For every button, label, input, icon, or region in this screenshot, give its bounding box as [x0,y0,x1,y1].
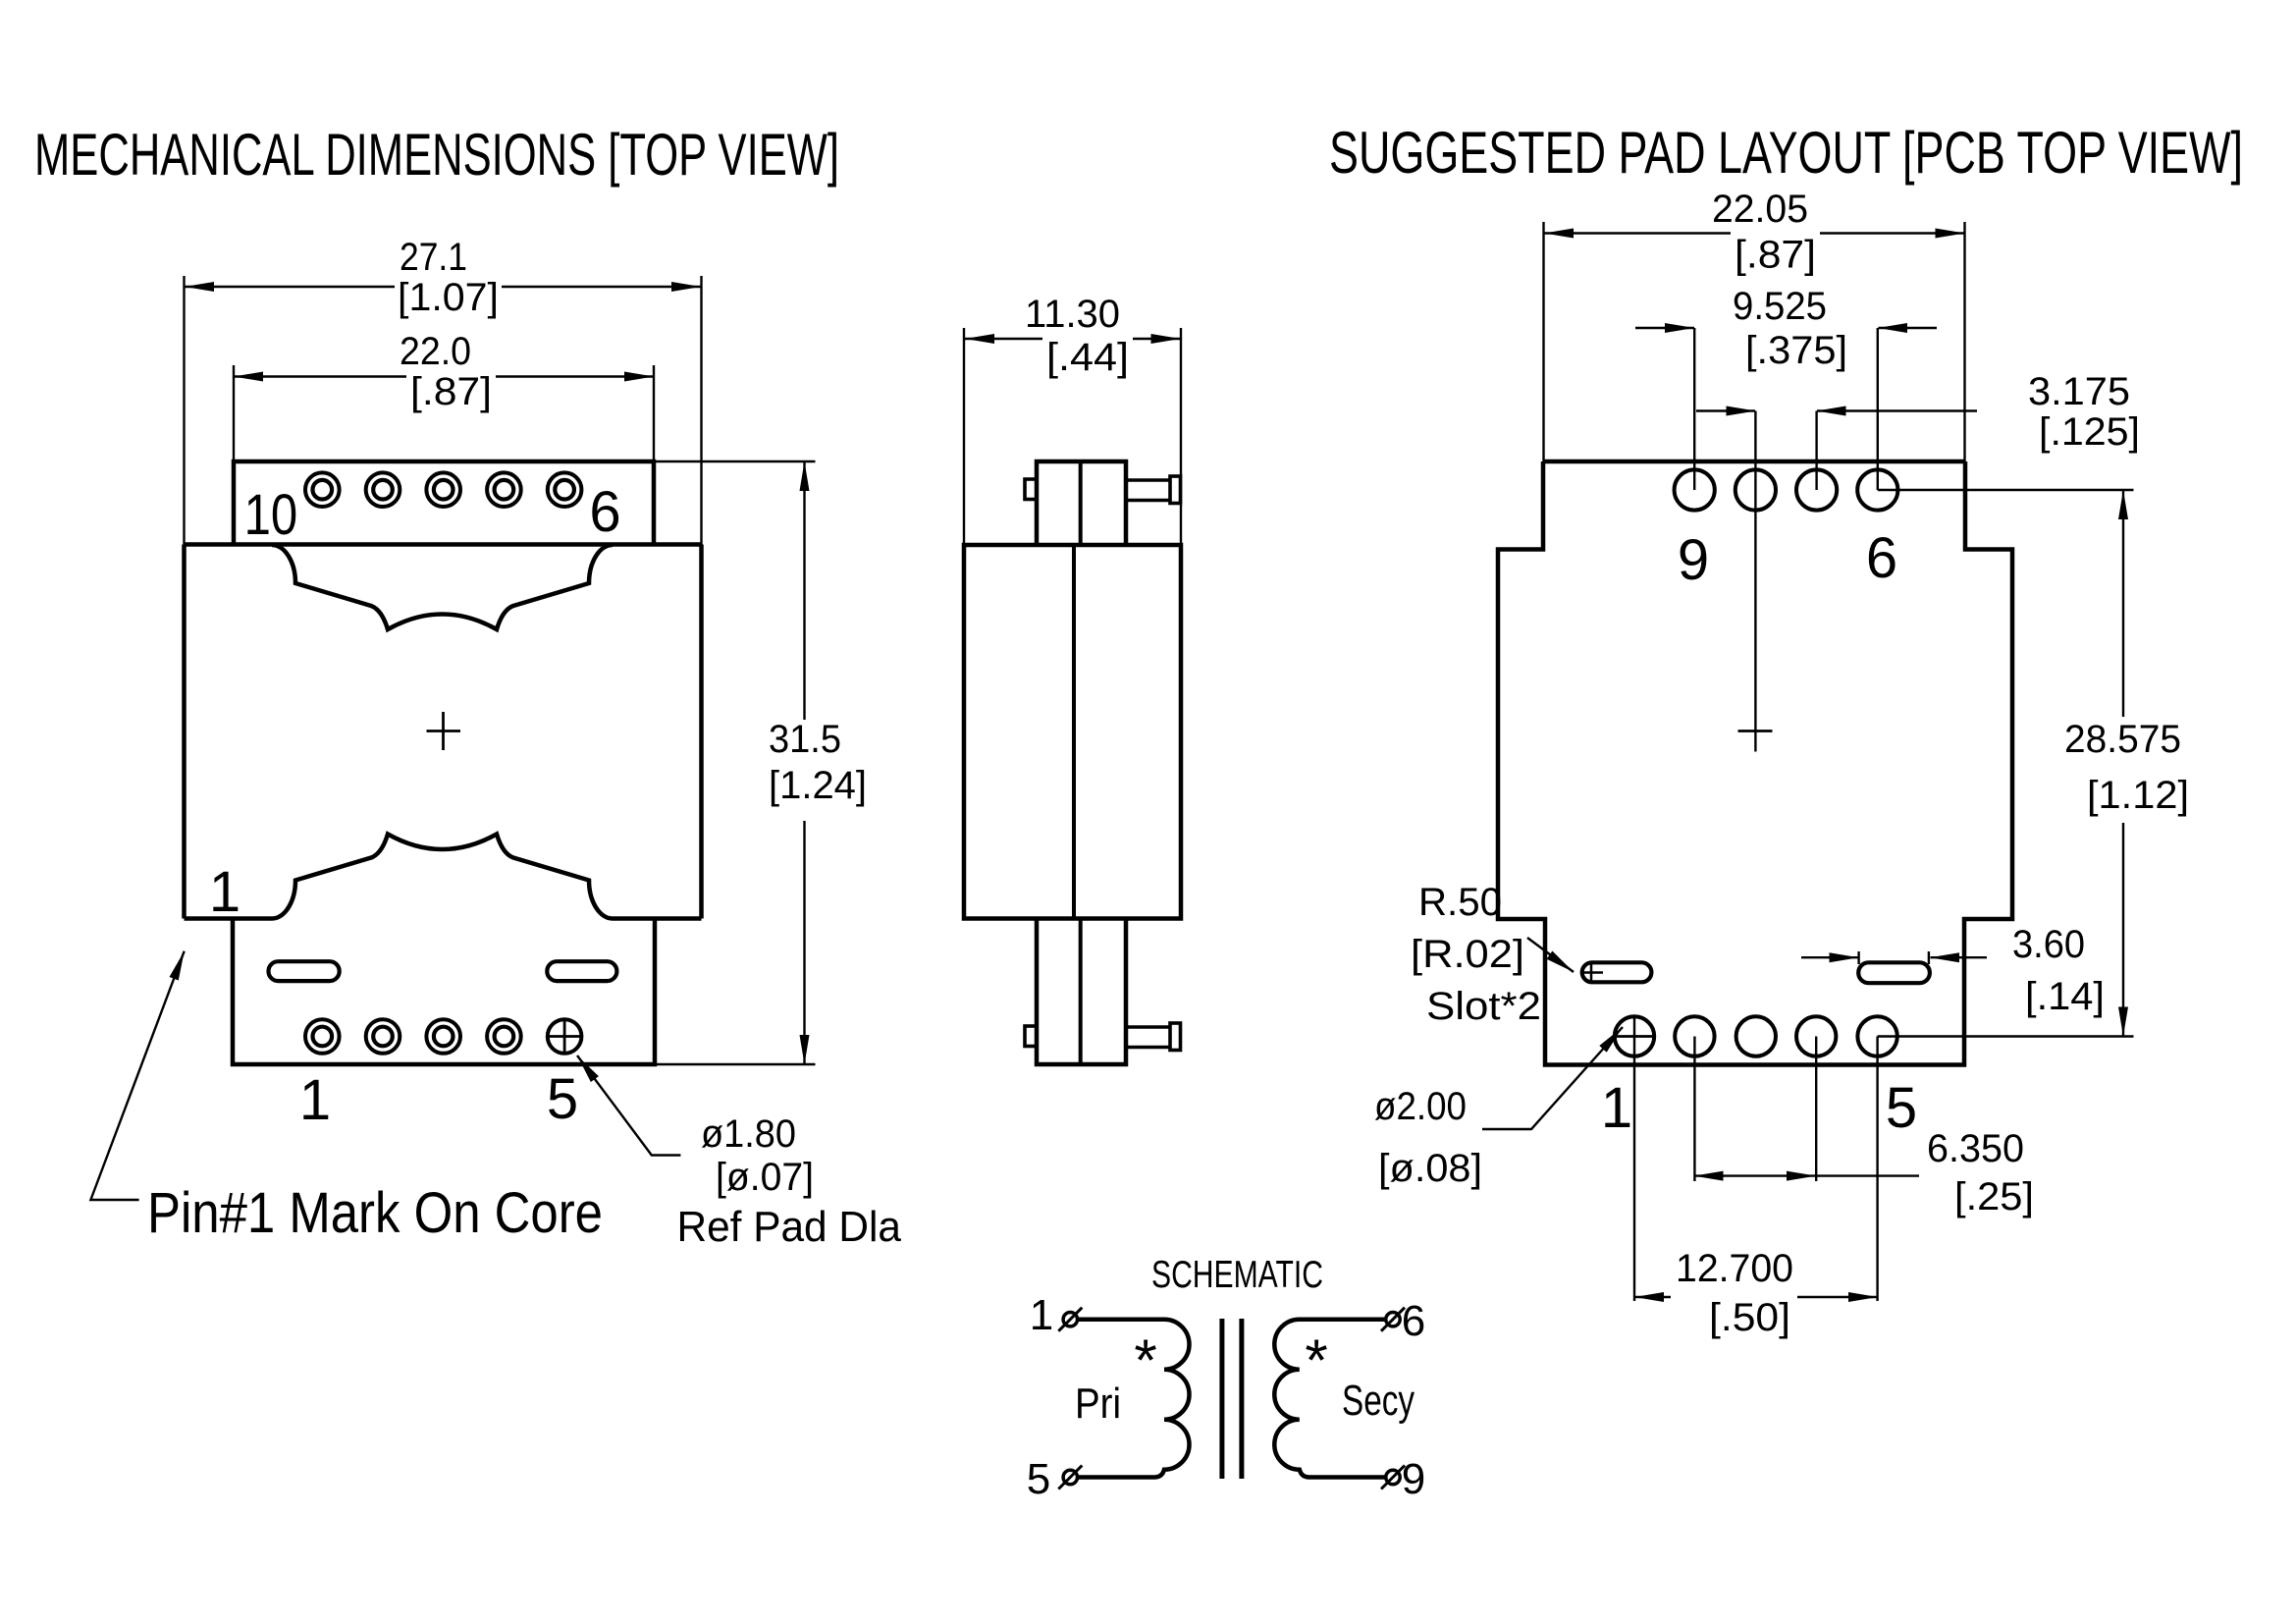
bobbin outline top [272,545,613,629]
svg-text:1: 1 [1601,1076,1632,1140]
svg-text:[ø.07]: [ø.07] [716,1156,814,1199]
top pin 6 outer [548,472,582,507]
terminal pin 9 [1386,1470,1400,1484]
centerline pad8 to center mark [1754,411,1756,752]
bottom pin 3 inner [434,1027,454,1047]
bottom pin 2 outer [366,1019,400,1054]
leader slot radius [1527,938,1574,972]
top pin 8 inner [434,480,454,500]
side view top header [1037,461,1126,545]
arrow 9.525 right [1878,323,1907,333]
pcb left slot cross vertical [1590,964,1593,981]
ext line 11.30 left [963,328,965,545]
svg-text:ø1.80: ø1.80 [701,1112,796,1156]
dim line 22.0 a [234,375,406,377]
arrow 12.700 right [1848,1292,1878,1302]
pad 7 top [1796,469,1837,510]
svg-text:R.50: R.50 [1418,881,1502,924]
ext line 6.350 left pad2 [1693,1037,1695,1182]
svg-text:SCHEMATIC: SCHEMATIC [1151,1254,1323,1296]
arrow 28.575 bottom [2118,1007,2128,1037]
ext line 9.525 right to pad6 [1877,328,1879,490]
right mounting slot [547,961,616,981]
svg-text:6: 6 [589,480,620,544]
bottom pin 2 inner [373,1027,393,1047]
dim line 31.5 b [803,821,805,1064]
svg-text:SUGGESTED PAD LAYOUT [PCB: SUGGESTED PAD LAYOUT [PCB TOP VIEW] [1329,120,2243,186]
core bottom edge right segment [613,916,702,921]
core left edge [182,545,187,919]
core bottom edge left segment [185,916,273,921]
dim line 6.350 tail [1816,1174,1919,1176]
svg-text:*: * [1134,1327,1156,1393]
terminal pin 1 [1063,1313,1077,1326]
arrow 6.350 left [1694,1171,1724,1181]
dim line 6.350 [1694,1174,1816,1176]
tick 3.60 left [1857,951,1859,964]
bottom pin 5 (ref pad) [548,1019,582,1054]
svg-text:3.175: 3.175 [2028,370,2130,413]
svg-text:12.700: 12.700 [1676,1247,1793,1290]
pad layout center mark horizontal [1738,730,1773,732]
arrow pin1 mark [170,951,185,981]
dim line 28.575 b [2122,823,2124,1037]
arrow 3.60 left [1830,952,1859,962]
arrow 3.175 left [1727,406,1756,416]
left mounting slot [269,961,340,981]
svg-text:*: * [1305,1327,1327,1393]
arrow 27.1 left [185,282,214,292]
svg-text:5: 5 [547,1067,578,1131]
arrow ref pad [577,1056,599,1082]
dim line 27.1 b [502,286,701,288]
svg-text:5: 5 [1886,1076,1917,1140]
svg-text:[.87]: [.87] [1735,234,1816,277]
ext line 28.575 top [1878,489,2134,491]
top pin 7 outer [487,472,521,507]
svg-text:Pri: Pri [1075,1380,1121,1428]
core top edge [185,542,702,547]
ext line 27.1 left [183,276,185,545]
svg-text:[1.24]: [1.24] [769,764,867,807]
svg-text:MECHANICAL DIMENSIONS [TOP: MECHANICAL DIMENSIONS [TOP VIEW] [34,122,839,188]
ext line 11.30 right [1180,328,1182,545]
bottom pin 3 outer [426,1019,460,1054]
svg-text:[.87]: [.87] [410,370,492,413]
svg-text:[.14]: [.14] [2025,975,2105,1018]
side view bottom header mid line [1079,919,1083,1065]
arrow slot radius [1547,951,1574,973]
svg-text:31.5: 31.5 [769,718,841,761]
top header flange [234,461,654,545]
svg-text:22.0: 22.0 [400,330,471,373]
pcb left slot [1582,962,1652,982]
svg-text:[.44]: [.44] [1046,336,1129,379]
ext line 22.05 left [1542,222,1544,461]
top pin 10 outer [305,472,340,507]
dim line 3.175 right tail [1817,409,1977,411]
ext line 27.1 right [700,276,702,545]
arrow 22.05 right [1936,229,1965,239]
leader pad dia [1482,1027,1623,1129]
top pin 6 inner [555,480,574,500]
svg-text:9.525: 9.525 [1733,285,1827,328]
svg-text:3.60: 3.60 [2012,923,2085,966]
top pin 8 outer [426,472,460,507]
tick 3.60 right [1928,951,1930,964]
svg-text:27.1: 27.1 [400,236,467,279]
ext line 3.175 to pad7 [1815,411,1817,491]
side view bottom right pin cap [1170,1023,1181,1051]
svg-text:Secy: Secy [1342,1377,1415,1425]
arrow 27.1 right [671,282,701,292]
pad 6 top [1857,469,1897,510]
bottom pin 1 inner [313,1027,333,1047]
side view top right pin lower [1126,499,1170,503]
dim line 22.05 b [1820,232,1965,234]
ext line 22.0 right [653,365,655,461]
ext line 6.350 right pad4 [1815,1037,1817,1182]
ext line 12.700 right pad5 [1876,1037,1878,1302]
side view core parting line [1072,545,1076,919]
leader ref pad [577,1056,680,1156]
pin 5 cross vertical [563,1019,566,1054]
pad 4 bottom [1796,1016,1836,1056]
pad 1 bottom [1615,1016,1654,1056]
svg-text:[.125]: [.125] [2039,410,2140,454]
svg-text:ø2.00: ø2.00 [1374,1085,1467,1128]
dim line 11.30 b [1133,338,1181,340]
svg-text:6.350: 6.350 [1927,1127,2024,1170]
svg-text:Pin#1 Mark On Core: Pin#1 Mark On Core [147,1181,603,1245]
svg-text:1: 1 [209,860,240,924]
pad 5 bottom [1857,1016,1896,1056]
svg-text:[ø.08]: [ø.08] [1378,1147,1482,1190]
arrow pad dia [1599,1027,1623,1053]
bottom flange [233,919,655,1065]
side view bottom right pin upper [1126,1025,1170,1029]
ext line 22.0 left [233,365,235,461]
svg-text:22.05: 22.05 [1712,188,1808,231]
terminal pin 5 [1063,1470,1077,1484]
svg-text:10: 10 [244,483,298,547]
side view core body [964,545,1181,919]
svg-text:[1.12]: [1.12] [2087,774,2189,817]
side view bottom right pin lower [1126,1046,1170,1050]
svg-text:[R.02]: [R.02] [1411,933,1524,976]
svg-text:11.30: 11.30 [1025,293,1120,336]
terminal pin 6 [1386,1313,1400,1326]
svg-text:9: 9 [1402,1455,1425,1503]
dim line 28.575 a [2122,490,2124,717]
arrow 6.350 right [1787,1171,1816,1181]
svg-text:Slot*2: Slot*2 [1426,985,1541,1028]
pad 3 bottom [1736,1016,1776,1056]
side view top header mid line [1079,461,1083,545]
dim line 12.700 a [1634,1296,1671,1298]
side view top left pin [1025,479,1037,500]
leader pin1 mark [90,951,184,1200]
side view top right pin cap [1170,476,1181,504]
arrow 22.0 left [234,372,263,382]
primary winding [1078,1320,1190,1478]
bobbin outline bottom [272,835,613,919]
terminal slash pin 9 [1381,1466,1405,1489]
terminal slash pin 6 [1381,1308,1405,1331]
center mark vertical [442,712,445,750]
pad 8 top [1735,469,1776,510]
pad 2 bottom [1675,1016,1714,1056]
top pin 7 inner [495,480,514,500]
svg-text:[.25]: [.25] [1954,1175,2034,1218]
dim line 3.175 left tail [1696,409,1755,411]
dim line 22.0 b [496,375,654,377]
dim line 27.1 a [185,286,395,288]
svg-text:[.50]: [.50] [1709,1296,1790,1339]
core right edge [699,545,704,919]
arrow 9.525 left [1665,323,1694,333]
arrow 3.175 right [1817,406,1846,416]
terminal slash pin 5 [1058,1466,1082,1489]
svg-text:[.375]: [.375] [1745,329,1847,372]
svg-text:6: 6 [1866,526,1897,590]
svg-text:1: 1 [1030,1291,1053,1339]
dim line 22.05 a [1544,232,1731,234]
top pin 9 outer [366,472,400,507]
ext line 31.5 top [655,460,816,462]
pin 5 cross horizontal [548,1035,582,1038]
arrow 11.30 left [965,334,994,344]
pcb right slot [1858,962,1930,983]
ext line 12.700 left pad1 [1633,1017,1635,1301]
ext line 9.525 left to pad9 [1693,328,1695,490]
terminal slash pin 1 [1058,1308,1082,1331]
arrow 22.05 left [1544,229,1574,239]
svg-text:Ref Pad Dla: Ref Pad Dla [677,1203,902,1251]
dim line 9.525 left tail [1635,327,1694,329]
transformer core line left [1219,1319,1224,1479]
svg-text:[1.07]: [1.07] [398,276,499,319]
svg-text:5: 5 [1027,1455,1050,1503]
pcb left slot cross horizontal [1582,971,1604,974]
arrow 28.575 top [2118,490,2128,519]
side view bottom left pin [1025,1026,1037,1047]
arrow 12.700 left [1634,1292,1664,1302]
dim line 12.700 b [1797,1296,1878,1298]
bottom pin 4 outer [487,1019,521,1054]
pad layout outline [1498,461,2012,1065]
side view bottom header [1037,919,1126,1065]
ext line 31.5 bottom [656,1063,816,1065]
pad 1 cross horizontal [1616,1035,1654,1038]
arrow 22.0 right [624,372,654,382]
arrow 31.5 top [800,461,810,491]
arrow 11.30 right [1151,334,1181,344]
side view top right pin upper [1126,478,1170,482]
secondary winding [1274,1320,1386,1478]
dim line 3.60 left tail [1801,956,1858,958]
bottom pin 4 inner [495,1027,514,1047]
center mark horizontal [427,730,461,732]
transformer core line right [1239,1319,1244,1479]
ext line 28.575 bottom [1878,1035,2134,1037]
arrow 31.5 bottom [800,1035,810,1064]
arrow 3.60 right [1930,952,1959,962]
svg-text:6: 6 [1402,1297,1425,1345]
top pin 10 inner [313,480,333,500]
ext line 22.05 right [1963,222,1965,461]
dim line 9.525 right tail [1879,327,1938,329]
dim line 11.30 a [965,338,1042,340]
bottom pin 1 outer [305,1019,340,1054]
svg-text:28.575: 28.575 [2064,718,2181,761]
top pin 9 inner [373,480,393,500]
svg-text:9: 9 [1678,528,1709,592]
pad 9 top [1675,469,1715,510]
dim line 31.5 a [803,461,805,720]
dim line 3.60 right tail [1931,956,1988,958]
svg-text:1: 1 [299,1068,331,1132]
